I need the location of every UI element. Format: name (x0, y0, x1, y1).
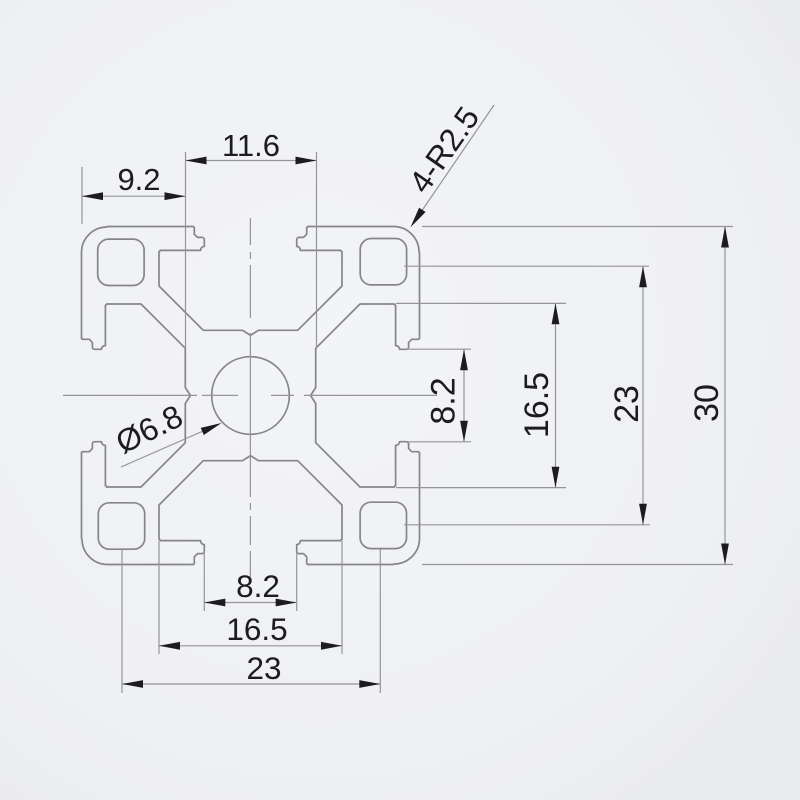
bottom T-slot cavity (159, 456, 342, 565)
extension line 23 right upper (404, 265, 649, 267)
extension line 16.5 bottom left (158, 541, 160, 654)
svg-text:23: 23 (246, 650, 281, 686)
svg-text:23: 23 (608, 385, 646, 423)
dimension line 23 (bottom) (122, 683, 380, 685)
svg-text:8.2: 8.2 (236, 568, 280, 604)
central hole dia 6.8 (212, 357, 290, 435)
vertical centerline (249, 218, 251, 577)
svg-text:8.2: 8.2 (424, 377, 462, 424)
profile outer contour: 30x30 square, R2.5 corners, slot openings (82, 227, 420, 565)
extension line 11.6 left (185, 152, 187, 348)
extension line 8.2 right lower (406, 441, 471, 443)
dimension line 30 (right, overall) (724, 227, 726, 565)
svg-text:30: 30 (688, 384, 726, 422)
horizontal centerline (63, 394, 437, 396)
extension line 30 right lower (422, 564, 733, 566)
leader line 4-R2.5 (414, 105, 495, 223)
top-right corner screw boss hole (360, 239, 406, 285)
right T-slot cavity (311, 304, 420, 487)
dimension line 11.6 (top slot opening) (186, 160, 317, 162)
dimension line 8.2 (bottom slot) (204, 602, 296, 604)
extension line 23 bottom left (121, 549, 123, 693)
dimension line 23 (right) (642, 266, 644, 525)
extension line 8.2 bottom left (203, 552, 205, 611)
svg-text:16.5: 16.5 (226, 611, 287, 647)
extension line 16.5 right lower (396, 487, 566, 489)
svg-text:9.2: 9.2 (117, 162, 160, 197)
svg-text:11.6: 11.6 (222, 128, 280, 163)
extension line 16.5 bottom right (341, 541, 343, 654)
extension line 16.5 right upper (396, 302, 566, 304)
extension line 30 right upper (422, 226, 733, 228)
arrowheads for all dimensions and leaders (82, 192, 103, 200)
dimension line 9.2 (top left) (82, 195, 186, 197)
dimension line 16.5 (bottom) (159, 645, 342, 647)
left T-slot cavity (82, 304, 191, 487)
dimension line 16.5 (right) (555, 303, 557, 488)
extension line 23 right lower (404, 524, 650, 526)
top-left corner screw boss hole (98, 239, 144, 285)
top T-slot cavity (159, 227, 342, 336)
bottom-right corner screw boss hole (360, 502, 406, 548)
svg-text:16.5: 16.5 (518, 372, 556, 438)
leader line dia 6.8 (121, 425, 218, 468)
extension line 11.6 right (316, 152, 318, 348)
bottom-left corner screw boss hole (98, 503, 144, 549)
extension line 9.2 left (81, 167, 83, 224)
dimension line 8.2 (right slot) (463, 349, 465, 442)
extension line 8.2 right upper (406, 348, 471, 350)
extension line 8.2 bottom right (296, 552, 298, 611)
extension line 23 bottom right (379, 549, 381, 693)
